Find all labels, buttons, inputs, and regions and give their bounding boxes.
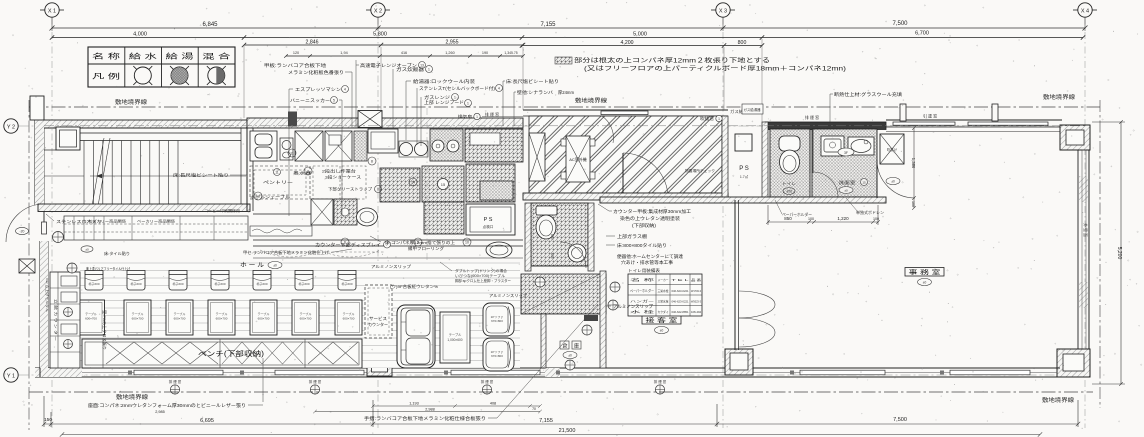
svg-text:600: 600 — [550, 234, 554, 240]
svg-text:椅子600: 椅子600 — [88, 281, 99, 286]
kitchen lower box2 — [334, 199, 357, 225]
svg-text:座面:コンパネ:2mmウレタンフォーム厚30mmのとビニール: 座面:コンパネ:2mmウレタンフォーム厚30mmのとビニールレザー張り — [88, 402, 246, 409]
kitchen lower xbox — [311, 199, 333, 225]
chair 4 — [211, 271, 229, 291]
svg-text:テーブル: テーブル — [300, 311, 312, 316]
svg-text:6: 6 — [344, 241, 346, 245]
svg-text:108-494: 108-494 — [691, 310, 701, 314]
svg-text:X 2: X 2 — [374, 8, 382, 14]
hall label — [240, 261, 282, 269]
grid marker X1 — [40, 3, 64, 17]
svg-text:テーブル: テーブル — [85, 311, 97, 316]
svg-text:排 煙 窓: 排 煙 窓 — [481, 379, 494, 384]
kitchen texts small — [274, 169, 312, 176]
stair bottom wall — [38, 204, 250, 212]
svg-text:甲板:ランバコア合板下地: 甲板:ランバコア合板下地 — [264, 62, 327, 69]
staff toilet fixture — [779, 136, 800, 174]
svg-text:2,955: 2,955 — [446, 40, 459, 46]
svg-text:カウンター甲板:集成材厚30mm加工: カウンター甲板:集成材厚30mm加工 — [613, 208, 692, 215]
svg-text:便器他:ホームセンターにて調達: 便器他:ホームセンターにて調達 — [617, 253, 684, 260]
office partition wall — [735, 200, 739, 350]
chair 6 — [295, 271, 313, 291]
svg-text:15: 15 — [862, 181, 866, 185]
svg-text:テーブル: テーブル — [343, 311, 355, 316]
right vertical dim 5200 — [1092, 120, 1125, 386]
svg-text:P S: P S — [484, 217, 493, 223]
stair direction arrow — [90, 174, 246, 178]
powder sink oval — [848, 137, 874, 155]
svg-text:メーカー: メーカー — [658, 277, 669, 282]
svg-text:排 煙 窓: 排 煙 窓 — [309, 379, 322, 384]
outer wall top storage section — [523, 110, 728, 116]
svg-text:トイレ: トイレ — [782, 181, 796, 186]
bottom wall column service — [367, 352, 392, 376]
svg-text:600×700: 600×700 — [300, 317, 312, 321]
hall floor boards — [80, 262, 520, 368]
outer wall top stair section — [38, 120, 247, 128]
entrance level ellipse — [16, 227, 29, 234]
corridor hatch — [521, 271, 606, 314]
svg-text:11: 11 — [275, 171, 279, 175]
svg-text:排 煙 窓: 排 煙 窓 — [485, 111, 499, 117]
grid line Y1 — [19, 374, 1094, 376]
svg-text:046-623-0221: 046-623-0221 — [672, 299, 690, 303]
staff toilet dim line — [766, 205, 880, 225]
legend table — [88, 47, 235, 87]
PS room — [722, 116, 768, 203]
outer wall top toilet section (dark) — [765, 122, 886, 130]
svg-text:テーブル: テーブル — [258, 311, 270, 316]
left standing counter — [50, 272, 80, 368]
svg-text:奥上塗バリアフリータイル仕上げ: 奥上塗バリアフリータイル仕上げ — [86, 266, 130, 271]
svg-text:120: 120 — [293, 51, 299, 55]
svg-text:壁:PBの上クロス張り: 壁:PBの上クロス張り — [102, 310, 107, 350]
vent box on kitchen wall — [358, 111, 382, 128]
powder divider — [810, 129, 838, 197]
chair 5 — [253, 271, 271, 291]
table 4 — [208, 300, 235, 335]
svg-text:1: 1 — [454, 96, 456, 100]
svg-text:±0: ±0 — [85, 248, 89, 252]
sofa couch — [397, 305, 435, 368]
kitchen tall unit — [354, 131, 367, 161]
sofa armchair 2 — [483, 338, 514, 371]
svg-text:SD 立上げモルタル: SD 立上げモルタル — [45, 278, 50, 313]
stair break line — [92, 138, 104, 206]
svg-text:P S: P S — [739, 166, 749, 172]
svg-text:椅子600: 椅子600 — [214, 281, 225, 286]
gas heater box above PS — [742, 104, 763, 114]
svg-text:三栄水栓: 三栄水栓 — [658, 298, 669, 303]
svg-text:±0: ±0 — [844, 189, 848, 193]
grid marker Y2 — [4, 119, 18, 133]
svg-text:トイレ用装備表: トイレ用装備表 — [628, 267, 660, 273]
svg-text:Y 1: Y 1 — [7, 373, 15, 379]
svg-text:断熱仕上材:グラスウール充填: 断熱仕上材:グラスウール充填 — [834, 91, 903, 98]
svg-text:吹抜窓: 吹抜窓 — [700, 116, 714, 121]
svg-text:吹抜け: 吹抜け — [887, 147, 898, 152]
svg-text:洗面室: 洗面室 — [839, 179, 856, 186]
table 5 — [250, 300, 277, 335]
left wall lower — [40, 222, 48, 377]
svg-text:壁他:シナランバ: 壁他:シナランバ — [517, 89, 554, 96]
svg-text:点検口: 点検口 — [483, 224, 494, 229]
table 3 — [166, 300, 193, 335]
vertical dim 1386 — [912, 126, 916, 210]
powder room — [812, 129, 877, 197]
kitchen marker circles — [288, 149, 296, 157]
kitchen stove block — [430, 129, 463, 161]
svg-text:給 湯: 給 湯 — [166, 52, 194, 61]
bottom wall glazing bars — [134, 370, 223, 375]
svg-text:椅子600: 椅子600 — [172, 281, 183, 286]
dimension row 2 — [50, 35, 1085, 39]
entrance door arc — [6, 204, 44, 242]
svg-text:15: 15 — [441, 182, 446, 187]
svg-text:椅子600: 椅子600 — [341, 281, 352, 286]
svg-text:水 栓: 水 栓 — [630, 309, 657, 314]
kitchen double sink circles — [399, 141, 428, 157]
svg-text:敷地境界線: 敷地境界線 — [575, 97, 608, 105]
svg-text:1: 1 — [467, 102, 469, 106]
note hatched-floor legend — [555, 57, 846, 73]
svg-text:サービス: サービス — [369, 315, 387, 322]
svg-text:敷地境界線: 敷地境界線 — [116, 393, 149, 401]
stair machine box — [56, 127, 80, 150]
svg-text:046-622-8851: 046-622-8851 — [672, 310, 690, 314]
kitchen-stair divider wall — [247, 128, 253, 211]
sofa armchair 1 — [483, 303, 514, 336]
svg-text:メラミン化粧板色番張り: メラミン化粧板色番張り — [288, 69, 344, 76]
svg-text:1: 1 — [718, 117, 720, 121]
svg-text:混 合: 混 合 — [202, 52, 230, 61]
right wall — [1078, 150, 1089, 352]
bottom small dims — [313, 404, 542, 413]
svg-text:縁甲フローリング: 縁甲フローリング — [408, 245, 444, 251]
svg-text:X 3: X 3 — [719, 8, 727, 14]
kitchen lower hatch — [424, 202, 464, 234]
powder sink square — [821, 136, 844, 156]
svg-text:W1703-3: W1703-3 — [691, 289, 701, 293]
svg-text:テーブル: テーブル — [449, 332, 462, 337]
svg-text:(ウ)9F合板柾ウレタン%: (ウ)9F合板柾ウレタン% — [390, 284, 439, 289]
legend symbol mixed — [207, 66, 226, 85]
outer wall bottom — [35, 368, 1060, 377]
svg-text:8: 8 — [377, 188, 379, 192]
svg-text:ホ ー ル: ホ ー ル — [240, 262, 264, 269]
svg-text:1,386: 1,386 — [911, 158, 916, 169]
kitchen hatch mid-right — [422, 166, 464, 202]
svg-text:引 違 窓: 引 違 窓 — [923, 113, 937, 119]
svg-text:排 煙 窓: 排 煙 窓 — [805, 114, 819, 120]
svg-text:7,155: 7,155 — [539, 418, 553, 424]
svg-text:ペーパーホルダー: ペーパーホルダー — [782, 212, 812, 217]
svg-text:排 煙 窓: 排 煙 窓 — [169, 379, 182, 384]
svg-text:2: 2 — [307, 170, 309, 174]
svg-text:敷地境界線: 敷地境界線 — [115, 98, 148, 106]
grid line X4 — [1084, 18, 1086, 429]
svg-text:事 務 室: 事 務 室 — [909, 269, 941, 277]
svg-text:Y 2: Y 2 — [7, 124, 15, 130]
powder door arc — [877, 160, 915, 198]
svg-text:立 飲 カ ウ ン タ ー: 立 飲 カ ウ ン タ ー — [54, 299, 59, 342]
svg-text:テーブル: テーブル — [174, 311, 186, 316]
kitchen PS shaft — [466, 204, 515, 235]
customer toilet sink — [568, 244, 586, 262]
svg-text:床:長尺塩ビシート貼り: 床:長尺塩ビシート貼り — [173, 172, 229, 179]
svg-text:X 1: X 1 — [48, 8, 56, 14]
svg-text:4,200: 4,200 — [621, 40, 634, 46]
svg-text:408: 408 — [490, 402, 496, 406]
svg-text:品 番: 品 番 — [691, 278, 701, 282]
svg-text:2,985: 2,985 — [155, 410, 165, 414]
svg-text:6,695: 6,695 — [200, 418, 214, 424]
wall posts bottom — [128, 371, 132, 375]
kitchen hatched block right — [465, 129, 523, 162]
storeroom walls — [541, 271, 606, 368]
svg-text:150: 150 — [44, 417, 52, 423]
svg-text:5,200: 5,200 — [1116, 247, 1122, 260]
toilet equipment table — [628, 267, 702, 316]
powder mid ellipse — [838, 148, 854, 156]
svg-text:椅子600: 椅子600 — [298, 281, 309, 286]
svg-text:単独式ポドレン: 単独式ポドレン — [856, 210, 884, 215]
svg-text:ベーカリー商品関係: ベーカリー商品関係 — [137, 219, 175, 224]
grid marker X2 — [366, 3, 390, 17]
svg-text:(又はフリーフロアの上パーティクルボード厚18mm＋コンパネ: (又はフリーフロアの上パーティクルボード厚18mm＋コンパネ12mn) — [584, 65, 846, 73]
svg-text:ガス給湯器: ガス給湯器 — [744, 107, 761, 112]
svg-text:8: 8 — [371, 160, 373, 164]
storage room hatch — [529, 116, 722, 193]
svg-text:テーブル: テーブル — [132, 311, 144, 316]
svg-text:1,000×600: 1,000×600 — [447, 338, 462, 342]
bench braces — [106, 342, 358, 364]
kitchen wash oval bottom — [486, 242, 512, 258]
staff toilet room — [770, 129, 810, 197]
svg-text:800: 800 — [738, 40, 747, 46]
svg-text:6,700: 6,700 — [915, 31, 929, 37]
svg-text:上部 レンジフード: 上部 レンジフード — [424, 99, 464, 106]
svg-text:名 称: 名 称 — [92, 52, 120, 61]
grid marker X4 — [1073, 3, 1097, 17]
customer toilet room — [525, 203, 594, 271]
svg-text:接 客 室: 接 客 室 — [646, 317, 678, 325]
svg-text:いびつな(600×700)テーブル: いびつな(600×700)テーブル — [455, 273, 505, 278]
svg-text:(下部収納): (下部収納) — [632, 222, 657, 229]
grid line Y2 overlay — [44, 125, 1085, 127]
service counter — [365, 285, 392, 338]
sofa table — [440, 312, 470, 363]
svg-text:600×700: 600×700 — [85, 317, 97, 321]
table 6 — [292, 300, 319, 335]
svg-text:凡 例: 凡 例 — [92, 72, 120, 81]
left wall top stub — [30, 96, 44, 120]
svg-text:1.7㎡: 1.7㎡ — [740, 174, 749, 179]
dimension row 3 — [242, 43, 764, 48]
kitchen back counter fridge — [250, 131, 277, 161]
bottom dim line total — [60, 432, 1042, 436]
customer toilet fixture — [536, 206, 557, 239]
svg-text:物置場所チェック: 物置場所チェック — [685, 168, 715, 173]
svg-text:染色の上ウレタン透明塗装: 染色の上ウレタン透明塗装 — [620, 215, 681, 222]
svg-text:アルミノンスリップ: アルミノンスリップ — [489, 292, 527, 298]
svg-text:100: 100 — [873, 217, 879, 221]
chair 2 — [127, 271, 145, 291]
svg-text:穴あけ・排水管等本工事: 穴あけ・排水管等本工事 — [621, 259, 674, 266]
storeroom label — [560, 341, 581, 359]
svg-text:600×700: 600×700 — [258, 317, 270, 321]
showcase shelf — [250, 226, 312, 236]
svg-text:床:コンパネ厚12mm捨て張りの上: 床:コンパネ厚12mm捨て張りの上 — [385, 239, 455, 245]
svg-text:10: 10 — [465, 241, 469, 245]
stair treads — [84, 141, 178, 205]
svg-text:下部グリーストラップ: 下部グリーストラップ — [328, 187, 372, 192]
svg-text:AC室外機: AC室外機 — [569, 156, 587, 162]
svg-text:600×700: 600×700 — [216, 317, 228, 321]
svg-text:名 称: 名 称 — [630, 277, 657, 282]
svg-text:-20: -20 — [20, 230, 25, 234]
svg-text:手摺:ランバコア合板下地メラミン化粧仕様合板張り: 手摺:ランバコア合板下地メラミン化粧仕様合板張り — [364, 415, 486, 422]
storage door — [623, 153, 668, 198]
svg-text:600×700: 600×700 — [132, 317, 144, 321]
svg-text:70: 70 — [532, 407, 536, 411]
chair 3 — [169, 271, 187, 291]
legend symbol hot water — [170, 66, 189, 85]
site boundary bottom — [29, 391, 1093, 393]
bottom wall column mid — [725, 349, 753, 375]
svg-text:アルミノンスリップ: アルミノンスリップ — [371, 263, 411, 269]
back counter row — [64, 216, 248, 240]
grid marker Y1 — [4, 368, 18, 382]
svg-text:12: 12 — [256, 195, 260, 199]
grid line Y2 — [19, 125, 1094, 127]
svg-text:670×800: 670×800 — [491, 354, 503, 358]
hall dashed guide arcs — [255, 250, 385, 257]
grid line X3 — [722, 18, 724, 429]
svg-text:670×800: 670×800 — [491, 319, 503, 323]
svg-text:14: 14 — [411, 181, 415, 185]
svg-text:X 4: X 4 — [1081, 8, 1089, 14]
outer wall top kitchen section — [247, 118, 523, 128]
bottom wall hatch segments — [35, 368, 82, 377]
svg-text:庫: 庫 — [574, 343, 579, 350]
grid line X1 — [51, 18, 53, 429]
kitchen island pantry dashed — [250, 166, 310, 199]
svg-text:2段出し作業台: 2段出し作業台 — [322, 169, 356, 174]
svg-text:5,800: 5,800 — [373, 32, 387, 38]
bench — [82, 339, 362, 368]
svg-text:給湯器:ロックウール内装: 給湯器:ロックウール内装 — [413, 78, 476, 85]
svg-text:1,345.75: 1,345.75 — [504, 51, 517, 55]
svg-text:±0: ±0 — [273, 264, 277, 268]
dark mat — [584, 315, 598, 321]
svg-text:敷地境界線: 敷地境界線 — [1043, 93, 1076, 101]
dimension row 4 small — [284, 54, 525, 58]
svg-text:床:800×800タイル貼り: 床:800×800タイル貼り — [617, 242, 667, 249]
hatch shaft xbox right — [880, 134, 904, 164]
svg-text:椅子600: 椅子600 — [130, 281, 141, 286]
toilet block bottom wall — [600, 197, 886, 203]
dim extension verticals — [244, 39, 762, 122]
partition double door — [739, 291, 775, 347]
svg-text:3F: 3F — [844, 151, 848, 155]
kitchen small unit — [280, 138, 293, 160]
svg-text:5: 5 — [333, 99, 335, 103]
svg-text:ダブルトップ(ドリンク)の場合: ダブルトップ(ドリンク)の場合 — [455, 268, 507, 273]
svg-text:416: 416 — [401, 51, 407, 55]
kitchen front counter — [253, 214, 523, 258]
svg-text:カウンター: カウンター — [368, 321, 388, 328]
AC outdoor unit — [561, 136, 595, 182]
PS inner box — [735, 134, 752, 151]
svg-text:600×700: 600×700 — [343, 317, 355, 321]
svg-text:給 水: 給 水 — [129, 52, 157, 61]
svg-text:7,155: 7,155 — [540, 22, 556, 28]
svg-text:650: 650 — [550, 253, 554, 259]
svg-text:3段ショーケース: 3段ショーケース — [325, 175, 361, 180]
svg-text:脚部:spクロム仕上座脚・ブラスター: 脚部:spクロム仕上座脚・ブラスター — [455, 278, 511, 283]
corridor fixture circles — [535, 277, 545, 287]
svg-text:排 煙 窓: 排 煙 窓 — [654, 379, 667, 384]
site boundary left — [28, 100, 30, 430]
site boundary top — [29, 106, 1100, 108]
top-right corner column — [1060, 125, 1090, 150]
svg-text:11: 11 — [290, 152, 294, 156]
svg-text:部分は根太の上コンパネ厚12mm２枚張り下地とする: 部分は根太の上コンパネ厚12mm２枚張り下地とする — [574, 57, 770, 65]
kitchen island mid rects — [313, 166, 366, 199]
svg-text:±0: ±0 — [660, 329, 664, 333]
svg-text:ハンガー: ハンガー — [630, 298, 654, 303]
svg-text:ステンレス巾木ズリ: ステンレス巾木ズリ — [56, 218, 102, 225]
customer toilet door arc — [560, 242, 586, 268]
svg-text:1,220: 1,220 — [837, 216, 849, 221]
svg-text:±0: ±0 — [923, 281, 927, 285]
svg-text:コーヒー印刷関係用: コーヒー印刷関係用 — [204, 208, 240, 213]
svg-text:W5023-3: W5023-3 — [691, 299, 701, 303]
svg-text:21,500: 21,500 — [559, 428, 576, 434]
svg-text:1,260: 1,260 — [445, 51, 455, 55]
svg-text:2,846: 2,846 — [306, 40, 319, 46]
left counter circles — [64, 308, 73, 317]
svg-text:2,988: 2,988 — [425, 408, 435, 412]
svg-text:1,94: 1,94 — [340, 51, 347, 55]
svg-text:三栄水栓: 三栄水栓 — [658, 288, 669, 293]
storage left shaft xbox — [529, 133, 545, 181]
svg-text:7,500: 7,500 — [892, 21, 908, 27]
svg-text:600×700: 600×700 — [174, 317, 186, 321]
kitchen lower sink oval — [357, 208, 378, 226]
svg-text:4,000: 4,000 — [133, 32, 147, 38]
kitchen counter xbox 1 — [295, 131, 323, 161]
svg-text:カクダイ: カクダイ — [658, 309, 669, 314]
legend symbol cold water — [133, 66, 152, 85]
svg-text:テーブル: テーブル — [216, 311, 228, 316]
entry fixture circles — [53, 232, 94, 274]
staircase room outline — [44, 128, 247, 204]
svg-text:±0: ±0 — [891, 180, 895, 184]
svg-text:100: 100 — [911, 201, 915, 207]
svg-text:敷地境界線: 敷地境界線 — [1042, 396, 1075, 404]
site boundary right — [1099, 100, 1101, 408]
svg-text:ステンレスT(セシルバックボード付): ステンレスT(セシルバックボード付) — [419, 85, 496, 92]
kitchen hatch right tall — [466, 164, 515, 202]
powder ellipse right — [886, 177, 900, 184]
outer wall top window section — [886, 104, 1077, 132]
chair 1 — [85, 271, 103, 291]
svg-text:±0: ±0 — [568, 354, 572, 358]
svg-text:1: 1 — [428, 68, 430, 72]
svg-text:1,193: 1,193 — [409, 402, 419, 406]
